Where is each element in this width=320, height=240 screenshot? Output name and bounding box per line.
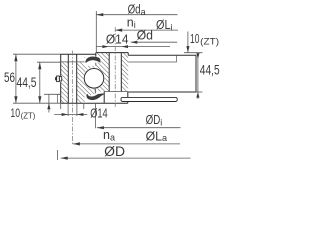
svg-text:Ø14: Ø14 bbox=[106, 32, 129, 46]
svg-text:10: 10 bbox=[10, 108, 20, 120]
svg-text:ØDi: ØDi bbox=[146, 113, 163, 127]
svg-text:44,5: 44,5 bbox=[17, 75, 37, 90]
svg-text:10: 10 bbox=[190, 32, 199, 46]
svg-text:Ø14: Ø14 bbox=[90, 106, 108, 121]
svg-text:56: 56 bbox=[4, 70, 15, 85]
svg-text:Ød: Ød bbox=[137, 29, 153, 43]
svg-text:ØLi: ØLi bbox=[156, 18, 173, 32]
svg-text:(ZT): (ZT) bbox=[200, 37, 219, 47]
svg-text:44,5: 44,5 bbox=[200, 62, 220, 78]
svg-text:ØD: ØD bbox=[104, 144, 125, 159]
svg-text:(ZT): (ZT) bbox=[21, 110, 36, 120]
